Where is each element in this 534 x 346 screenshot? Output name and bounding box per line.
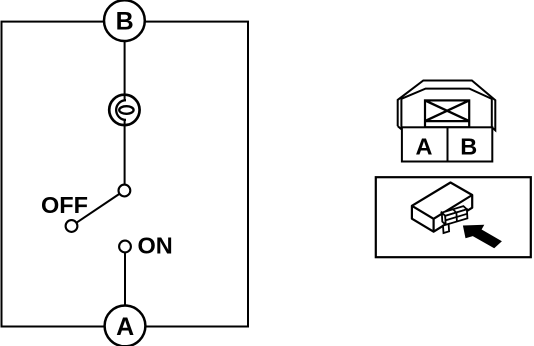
relay connector lower tab (443, 224, 449, 233)
node B (104, 0, 145, 41)
switch SW1 ON contact (119, 241, 131, 253)
svg-text:OFF: OFF (41, 192, 88, 218)
relay body silhouette (412, 183, 472, 232)
svg-text:A: A (416, 134, 433, 160)
switch SW1 OFF contact (66, 220, 78, 232)
node A (105, 306, 146, 346)
relay connector top face (442, 206, 467, 216)
svg-text:B: B (116, 8, 134, 36)
connector C1 cavity row (402, 127, 492, 161)
circuit box outline (2, 22, 249, 327)
arrow pointing at relay connector (463, 225, 502, 248)
svg-text:ON: ON (138, 232, 173, 258)
relay connector top face pin divider (453, 209, 457, 212)
wire lamp to switch (124, 120, 126, 185)
svg-text:A: A (116, 313, 134, 341)
wire ON to A (124, 252, 126, 305)
switch SW1 common contact (119, 185, 131, 197)
relay illustration frame (376, 177, 531, 257)
relay connector front face with pins (445, 209, 467, 225)
relay connector left face (442, 213, 446, 225)
svg-text:B: B (460, 134, 477, 160)
lamp L1 (109, 94, 139, 125)
connector C1 lock tab box with X (425, 100, 469, 127)
switch SW1 blade (77, 194, 120, 223)
wire B to lamp (124, 41, 126, 101)
connector C1 face view outer outline (398, 81, 496, 131)
relay body top face edges (412, 195, 472, 232)
connector C1 face view inner outline (401, 89, 491, 130)
